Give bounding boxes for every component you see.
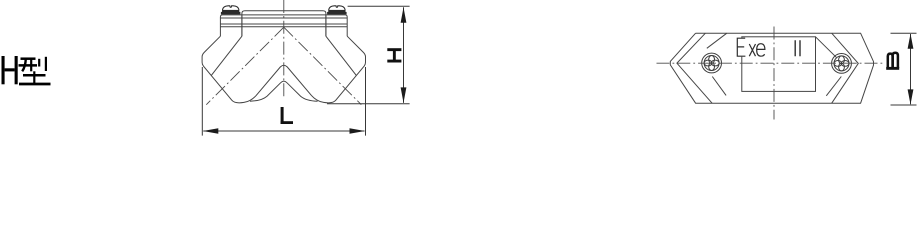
cover plate line 3 — [220, 23, 347, 25]
cover plate top edge with rounded corners — [220, 15, 347, 36]
H label — [387, 48, 401, 62]
lid edge vertical left — [241, 15, 243, 36]
dimension L — [202, 67, 365, 136]
cover plate bottom line — [220, 26, 347, 28]
cover plate line 2 — [220, 17, 347, 19]
inner bore diagonal left — [211, 36, 242, 75]
L label — [281, 107, 293, 124]
lid edge vertical right — [325, 15, 327, 36]
L arrow left — [203, 128, 219, 134]
gusset line right top — [816, 37, 837, 58]
left screw (front) — [221, 6, 241, 15]
B arrow down — [908, 89, 914, 104]
dome cap — [329, 6, 345, 12]
bore centerline left — [206, 27, 283, 105]
outer circle — [702, 53, 722, 73]
bore centerline right — [284, 27, 362, 105]
H arrow down — [401, 87, 407, 103]
label H-type text: CJK glyph 型 drawn as strokes — [19, 57, 51, 84]
B extension line bottom — [891, 104, 917, 106]
dimension B — [891, 33, 917, 105]
letter x — [749, 44, 755, 56]
L dimension line — [203, 130, 364, 132]
white gap in plate edge behind text — [741, 38, 744, 57]
vertical centerline — [283, 0, 285, 99]
gusset line left bottom — [712, 77, 726, 96]
right screw (front) — [327, 6, 347, 15]
screw neck band — [222, 10, 239, 12]
inner chamfer V left — [677, 33, 712, 103]
H arrow up — [401, 7, 407, 22]
B label — [886, 53, 899, 70]
outer circle — [832, 54, 852, 74]
inner chevron line — [250, 81, 318, 101]
right screw (top view) — [832, 54, 852, 74]
B dimension line — [910, 34, 912, 104]
B arrow up — [908, 34, 914, 49]
numerals II — [795, 40, 800, 56]
inner circle — [704, 56, 719, 71]
dimension H — [327, 6, 410, 103]
centerlines front view — [206, 0, 361, 105]
inner chamfer V right — [832, 33, 859, 103]
box outline octagon — [670, 33, 873, 103]
H extension line bottom — [327, 103, 410, 105]
left screw (top view) — [702, 53, 722, 73]
screw washer band — [327, 12, 347, 15]
B extension line top — [891, 32, 917, 34]
L extension line right — [365, 67, 367, 136]
vertical centerline — [773, 27, 775, 120]
L arrow right — [350, 128, 366, 134]
cover lid raised band — [242, 11, 326, 37]
letter E — [737, 38, 745, 56]
screw washer band — [221, 12, 241, 15]
screw neck band — [329, 10, 346, 12]
cross recess petals — [839, 56, 845, 64]
gusset line left top — [707, 33, 727, 48]
inner circle — [834, 56, 849, 71]
gusset line right bottom — [826, 77, 841, 96]
horizontal centerline — [657, 62, 885, 64]
label H-type text: letter H — [2, 56, 18, 84]
label plate rectangle — [742, 37, 816, 92]
L extension line left — [201, 67, 203, 136]
H dimension line — [403, 7, 405, 103]
cross recess petals — [709, 56, 715, 64]
Exe II label text drawn as thin strokes — [737, 38, 800, 56]
H extension line top — [348, 5, 410, 7]
letter e — [757, 44, 765, 57]
dome cap — [223, 6, 239, 12]
centerlines top view — [657, 27, 885, 120]
body outline with tips and bottom W — [202, 36, 365, 103]
inner bore diagonal right — [326, 36, 357, 75]
